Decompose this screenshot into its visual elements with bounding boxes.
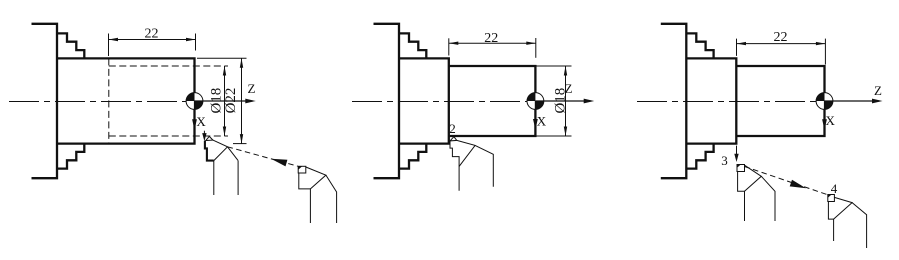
workpiece origin symbol (diagram 2) [527, 93, 544, 110]
svg-text:X: X [196, 114, 206, 129]
workpiece collar Ø22 (diagram 3) [686, 58, 736, 143]
centerline (diagram 3) [637, 101, 818, 103]
turning tool (diagram 1, at cut position) [205, 136, 238, 195]
dimension 22 (diagram 2) [449, 38, 536, 58]
dimension 22 (diagram 3) [737, 39, 826, 65]
svg-text:X: X [537, 113, 547, 128]
turning tool (diagram 1, retracted position) [298, 166, 336, 223]
turned section Ø18 (diagram 3) [736, 66, 824, 136]
turned section Ø18 (diagram 2) [449, 66, 536, 136]
svg-text:3: 3 [721, 153, 728, 168]
svg-text:X: X [826, 113, 836, 128]
Z axis (diagram 3) [825, 100, 880, 102]
X axis (diagram 3) [824, 101, 826, 122]
centerline (diagram 2) [352, 101, 529, 103]
Z axis (diagram 2) [535, 100, 590, 102]
chuck (diagram 1) [32, 24, 85, 178]
svg-text:22: 22 [145, 27, 159, 42]
turning tool 4 [828, 195, 867, 249]
plunge direction arrow above tool (diagram 1) [203, 131, 205, 134]
workpiece origin symbol (diagram 1) [186, 93, 203, 110]
dimension 22 (diagram 1) [109, 34, 196, 57]
X axis (diagram 2) [534, 101, 536, 122]
chuck (diagram 3) [661, 24, 714, 178]
svg-text:Z: Z [874, 83, 882, 98]
Z axis (diagram 1) [195, 100, 253, 102]
svg-text:4: 4 [831, 181, 838, 196]
turning tool 3 [737, 165, 775, 222]
plunge direction arrow (tool 3) [736, 146, 738, 155]
svg-text:Z: Z [565, 81, 573, 96]
workpiece collar Ø22 (diagram 2) [399, 58, 449, 143]
workpiece blank Ø22 (diagram 1) [57, 58, 195, 143]
hidden Ø18 profile left boundary (dashed vertical) [108, 58, 110, 143]
turning tool 2 [450, 137, 493, 191]
hidden Ø18 profile bottom (dashed) [109, 135, 228, 137]
tool change leader 3→4 (dashed) [745, 167, 828, 195]
dimension Ø18 (diagram 2) [537, 66, 572, 136]
centerline (diagram 1) [9, 101, 189, 103]
chuck (diagram 2) [374, 24, 427, 178]
dimension Ø18 (diagram 1) [224, 66, 226, 136]
dimension Ø22 (diagram 1) [197, 58, 247, 143]
svg-text:2: 2 [449, 121, 456, 136]
svg-text:22: 22 [484, 31, 498, 46]
svg-text:22: 22 [774, 30, 788, 45]
workpiece origin symbol (diagram 3) [816, 93, 833, 110]
X axis (diagram 1) [194, 101, 196, 122]
svg-text:Z: Z [248, 81, 256, 96]
hidden Ø18 profile top (dashed) [109, 65, 228, 67]
tool motion leader (diagram 1, dashed) [228, 147, 299, 167]
